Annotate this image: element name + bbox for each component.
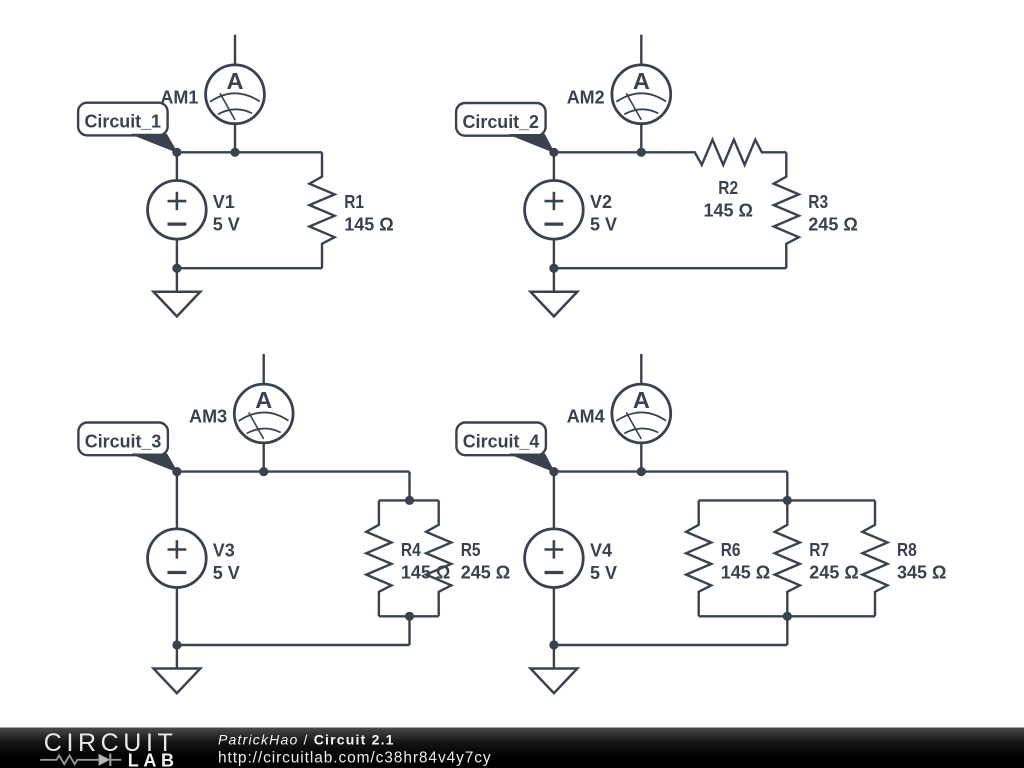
svg-text:R4: R4 bbox=[401, 540, 421, 560]
svg-text:R5: R5 bbox=[461, 540, 481, 560]
svg-text:245 Ω: 245 Ω bbox=[809, 563, 858, 583]
svg-text:5 V: 5 V bbox=[590, 215, 617, 235]
svg-text:AM3: AM3 bbox=[189, 407, 227, 427]
svg-text:145 Ω: 145 Ω bbox=[401, 563, 450, 583]
svg-text:Circuit_3: Circuit_3 bbox=[85, 432, 162, 452]
svg-text:145 Ω: 145 Ω bbox=[703, 201, 752, 221]
svg-text:V3: V3 bbox=[213, 540, 235, 560]
svg-text:5 V: 5 V bbox=[213, 215, 240, 235]
svg-text:R7: R7 bbox=[809, 540, 829, 560]
svg-text:LAB: LAB bbox=[128, 751, 179, 768]
svg-text:345 Ω: 345 Ω bbox=[897, 563, 946, 583]
svg-text:Circuit_1: Circuit_1 bbox=[85, 112, 162, 132]
svg-text:V2: V2 bbox=[590, 192, 612, 212]
svg-text:V1: V1 bbox=[213, 192, 235, 212]
svg-text:5 V: 5 V bbox=[590, 563, 617, 583]
svg-text:http://circuitlab.com/c38hr84v: http://circuitlab.com/c38hr84v4y7cy bbox=[218, 749, 492, 766]
svg-text:R3: R3 bbox=[808, 192, 828, 212]
svg-text:R1: R1 bbox=[344, 192, 364, 212]
svg-text:Circuit_4: Circuit_4 bbox=[463, 432, 540, 452]
svg-text:245 Ω: 245 Ω bbox=[461, 563, 510, 583]
svg-text:145 Ω: 145 Ω bbox=[721, 563, 770, 583]
svg-text:245 Ω: 245 Ω bbox=[808, 215, 857, 235]
svg-text:R6: R6 bbox=[721, 540, 741, 560]
svg-text:V4: V4 bbox=[590, 540, 612, 560]
svg-text:PatrickHao / Circuit 2.1: PatrickHao / Circuit 2.1 bbox=[218, 731, 395, 747]
svg-text:R2: R2 bbox=[718, 178, 738, 198]
svg-text:145 Ω: 145 Ω bbox=[344, 214, 393, 234]
svg-text:Circuit_2: Circuit_2 bbox=[463, 112, 540, 132]
svg-text:AM4: AM4 bbox=[567, 407, 605, 427]
svg-text:AM1: AM1 bbox=[160, 87, 198, 107]
svg-text:R8: R8 bbox=[897, 540, 917, 560]
svg-text:AM2: AM2 bbox=[567, 87, 605, 107]
svg-text:5 V: 5 V bbox=[213, 563, 240, 583]
